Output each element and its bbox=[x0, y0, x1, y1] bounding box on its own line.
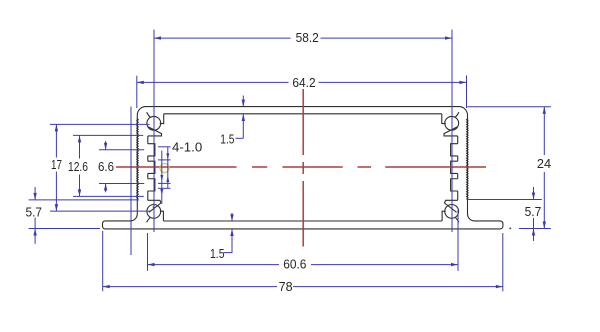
svg-text:60.6: 60.6 bbox=[283, 258, 306, 272]
dimension 1.5 bottom bbox=[231, 213, 233, 221]
right inner wall bbox=[457, 136, 459, 144]
center dot bottom-left boss bbox=[153, 206, 155, 208]
vertical centerline bbox=[302, 89, 304, 155]
extension line 5.7L top bbox=[29, 199, 139, 201]
svg-text:1.5: 1.5 bbox=[210, 247, 225, 261]
screw boss top-left bbox=[147, 116, 161, 130]
floor groove left bbox=[160, 211, 164, 221]
extension line 6.6 bottom bbox=[99, 183, 144, 185]
extra vertical extension line left wall bbox=[130, 107, 132, 256]
extension line 24 bottom bbox=[519, 228, 551, 230]
knurl serration left wall bbox=[137, 119, 139, 199]
extension line 58.2 right bbox=[451, 30, 453, 233]
svg-text:78: 78 bbox=[279, 280, 293, 294]
dimension 1.5 top bbox=[242, 96, 244, 107]
extension line 64.2 left bbox=[136, 76, 138, 108]
svg-text:12.6: 12.6 bbox=[68, 160, 88, 174]
dimension 6.6 bbox=[105, 141, 107, 150]
boss channel top-right bbox=[444, 127, 458, 136]
extension line 64.2 right bbox=[466, 76, 468, 109]
rib chamfer bottom-left bbox=[148, 200, 161, 212]
extension line 5.7L bottom bbox=[29, 228, 100, 230]
boss channel top-left bbox=[148, 127, 162, 136]
screw boss top-right bbox=[445, 116, 459, 130]
PCB ribs right bbox=[451, 144, 458, 156]
knurl serration right wall bbox=[467, 119, 469, 199]
stray dot right flange bbox=[509, 228, 511, 230]
svg-text:64.2: 64.2 bbox=[292, 76, 315, 90]
svg-text:24: 24 bbox=[537, 157, 551, 171]
svg-text:5.7: 5.7 bbox=[26, 205, 43, 219]
inner ceiling line bbox=[164, 113, 442, 115]
yellow snap marker bbox=[160, 163, 169, 172]
dimension 5.7 left bbox=[34, 187, 36, 200]
svg-text:4-1.0: 4-1.0 bbox=[172, 141, 202, 155]
extension line 78 left bbox=[102, 231, 104, 291]
extension line 78 right bbox=[502, 233, 504, 291]
svg-text:58.2: 58.2 bbox=[296, 31, 319, 45]
ceiling groove left bbox=[160, 114, 164, 124]
ceiling groove right bbox=[442, 114, 446, 124]
screw boss bottom-right bbox=[445, 205, 459, 219]
dimension 5.7 right bbox=[533, 187, 535, 200]
dimension 24 bbox=[543, 107, 545, 155]
extension line 12.6 bottom bbox=[73, 195, 144, 197]
extension line 5.7R top bbox=[467, 199, 542, 201]
extension line 12.6 top bbox=[73, 134, 143, 136]
dimension 78 bbox=[103, 286, 277, 288]
profile outer contour bbox=[103, 107, 503, 229]
dimension 60.6 bbox=[148, 264, 280, 266]
extension line 17 bottom bbox=[50, 210, 151, 212]
svg-text:1.5: 1.5 bbox=[220, 132, 234, 146]
extension line 58.2 left bbox=[153, 30, 155, 233]
dimension 4-1.0 slot callout bbox=[158, 146, 171, 148]
extension line 24 top bbox=[467, 106, 551, 108]
extension line 60.6 left bbox=[147, 233, 149, 271]
svg-text:5.7: 5.7 bbox=[525, 205, 542, 219]
svg-text:6.6: 6.6 bbox=[98, 160, 114, 174]
dimension 64.2 bbox=[137, 81, 289, 83]
floor groove right bbox=[442, 211, 446, 221]
extension line 6.6 top bbox=[99, 149, 144, 151]
dimension 17 bbox=[55, 124, 57, 157]
screw boss bottom-left bbox=[147, 205, 161, 219]
extension line 60.6 right bbox=[457, 210, 459, 271]
dimension 58.2 bbox=[154, 37, 291, 39]
rib chamfer bottom-right bbox=[445, 200, 458, 212]
left inner wall bbox=[147, 136, 149, 144]
dimension 12.6 bbox=[79, 135, 81, 158]
PCB ribs left bbox=[148, 144, 155, 156]
extension line 17 top bbox=[50, 123, 150, 125]
svg-text:17: 17 bbox=[51, 158, 62, 172]
horizontal centerline bbox=[116, 166, 237, 168]
inner floor line bbox=[163, 220, 442, 222]
